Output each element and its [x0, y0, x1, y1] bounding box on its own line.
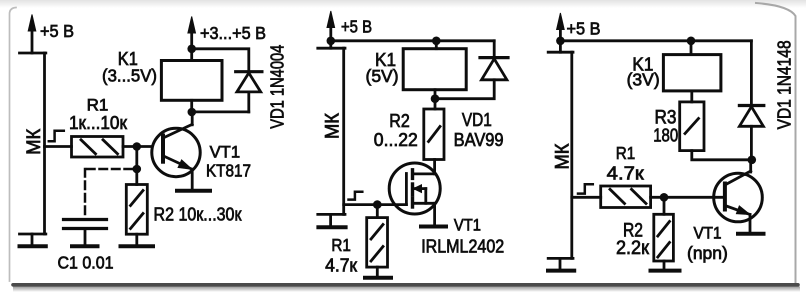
svg-text:2.2к: 2.2к	[616, 238, 650, 259]
wire node B to R2	[135, 169, 138, 185]
svg-text:R2 10к...30к: R2 10к...30к	[154, 204, 243, 225]
svg-text:(5V): (5V)	[366, 66, 399, 86]
gate bar	[405, 174, 408, 205]
diode VD1 1N4148	[739, 41, 763, 160]
+5V rail circuit 3	[560, 39, 751, 42]
MK vertical line	[342, 48, 345, 214]
transistor VT1 (npn) circuit 3	[714, 171, 763, 222]
svg-text:МК: МК	[553, 144, 574, 170]
page left border	[10, 8, 17, 282]
diode VD1 BAV99	[435, 41, 508, 99]
svg-text:4.7к: 4.7к	[607, 163, 645, 184]
wire relay top to diode branch	[192, 49, 249, 72]
resistor R2 0...22 circuit 2	[424, 109, 444, 160]
resistor R2 (10к...30к) circuit 1	[126, 185, 147, 235]
node rail at arrow	[327, 37, 336, 46]
ground under source circuit 2	[421, 225, 446, 229]
svg-text:BAV99: BAV99	[454, 129, 504, 150]
node B junction dot	[133, 165, 142, 174]
wire R1 to base node	[651, 196, 725, 199]
MK bottom bar	[318, 213, 345, 216]
svg-text:VT1: VT1	[454, 217, 481, 235]
svg-text:VD1 1N4004: VD1 1N4004	[268, 45, 288, 129]
node collector circuit 1	[188, 108, 197, 117]
drain internal	[413, 172, 435, 175]
wire node to R2 circuit 3	[663, 197, 666, 214]
node below relay circuit 2	[431, 94, 440, 103]
wire relay bottom to collector node	[190, 100, 193, 112]
wire R2 to ground	[135, 234, 138, 245]
gate wire MK to MOSFET	[344, 203, 407, 206]
+5V rail circuit 2	[331, 39, 494, 42]
svg-text:IRLML2402: IRLML2402	[421, 237, 504, 257]
channel segments	[411, 170, 414, 179]
resistor R1 4.7к circuit 2	[367, 205, 388, 277]
svg-text:+5 В: +5 В	[567, 19, 601, 39]
power arrow +5V circuit 1	[28, 15, 36, 54]
node rail at arrow circuit 3	[556, 37, 565, 46]
capacitor C1 0.01	[64, 220, 107, 246]
svg-text:1к...10к: 1к...10к	[69, 112, 128, 133]
svg-text:МК: МК	[322, 113, 343, 139]
pulse step symbol circuit 1	[49, 131, 64, 141]
wire R1 to node A	[123, 145, 152, 148]
svg-text:VT1: VT1	[210, 143, 241, 162]
source wire	[433, 203, 436, 225]
node collector circuit 3	[748, 156, 757, 165]
svg-text:C1 0.01: C1 0.01	[58, 253, 114, 273]
ground under R1 circuit 2	[365, 276, 391, 280]
resistor R2 2.2к circuit 3	[654, 214, 674, 269]
svg-text:4.7к: 4.7к	[325, 255, 357, 275]
node A junction dot	[133, 142, 142, 151]
ground under emitter circuit 1	[177, 189, 210, 193]
MK port rail circuit 3	[548, 52, 573, 258]
svg-text:(npn): (npn)	[687, 243, 728, 263]
wire relay bottom to node	[434, 90, 437, 109]
MK vertical line	[570, 52, 573, 258]
wire rail to relay top	[435, 41, 438, 49]
svg-text:МК: МК	[24, 129, 45, 155]
wire diode to collector node	[192, 111, 249, 114]
svg-text:VD1 1N4148: VD1 1N4148	[774, 40, 794, 129]
MK top bar	[318, 47, 345, 50]
collector wire circuit 3	[749, 160, 752, 172]
svg-text:+5 В: +5 В	[40, 21, 74, 41]
wire MK to R1	[45, 145, 72, 148]
transistor VT1 KT817 (npn)	[152, 124, 200, 176]
body to source connector	[424, 189, 427, 204]
page top edge shading	[0, 0, 806, 8]
MK port rail circuit 2	[318, 48, 345, 214]
power arrow +5V circuit 2	[327, 11, 335, 48]
wire R3 to collector node	[692, 151, 752, 160]
node rail above relay	[432, 37, 441, 46]
node top of relay circuit 1	[187, 45, 196, 54]
source internal	[413, 202, 435, 205]
MK bottom bar	[20, 233, 46, 236]
MK top bar	[548, 51, 573, 54]
wire MK to R1 circuit 3	[572, 196, 601, 199]
wire relay bottom to R3	[690, 91, 693, 102]
ground under emitter circuit 3	[738, 232, 764, 236]
svg-text:R2: R2	[389, 110, 410, 131]
MK port rail circuit 1	[20, 53, 46, 234]
power arrow +3...+5 В	[188, 17, 196, 61]
MK top bar	[20, 52, 46, 55]
svg-text:(3V): (3V)	[627, 70, 660, 90]
emitter wire	[191, 169, 194, 189]
pulse step symbol circuit 2	[349, 192, 363, 200]
svg-text:0...22: 0...22	[374, 130, 418, 150]
collector wire	[191, 112, 194, 125]
relay K1 (3V) circuit 3	[663, 55, 721, 91]
svg-text:R1: R1	[331, 235, 351, 255]
relay K1 (5V) circuit 2	[403, 49, 466, 90]
body arrow	[414, 187, 426, 190]
svg-text:180: 180	[653, 125, 678, 146]
dashed wire node B to C1	[85, 169, 132, 217]
pulse step symbol circuit 3	[578, 184, 593, 193]
MK ground circuit 3	[548, 258, 574, 270]
resistor R3 180	[680, 102, 704, 151]
ground under R2 circuit 1	[121, 244, 154, 248]
resistor R1 (1к...10к) circuit 1	[72, 137, 124, 158]
page right border	[756, 3, 796, 283]
diode VD1 1N4004	[236, 72, 262, 112]
svg-text:+3...+5 В: +3...+5 В	[200, 23, 266, 43]
drain wire	[433, 160, 436, 174]
MK bottom bar	[548, 257, 573, 260]
ground under R2 circuit 3	[651, 269, 680, 273]
node rail above relay circuit 3	[687, 37, 696, 46]
ground under C1	[72, 244, 98, 248]
svg-text:VT1: VT1	[694, 225, 722, 243]
svg-text:KT817: KT817	[206, 161, 251, 181]
MK ground circuit 2	[318, 214, 345, 227]
power arrow +5V circuit 3	[557, 13, 565, 52]
page bottom shadow	[13, 287, 800, 293]
svg-text:(3...5V): (3...5V)	[102, 66, 157, 86]
MK vertical line	[43, 53, 46, 234]
MK ground circuit 1	[20, 234, 46, 246]
resistor R1 4.7к circuit 3	[601, 186, 651, 208]
node base junction circuit 3	[660, 193, 669, 202]
svg-text:R1: R1	[616, 143, 636, 163]
svg-text:+5 В: +5 В	[341, 17, 372, 37]
svg-text:VD1: VD1	[462, 109, 492, 130]
wire rail to relay top circuit 3	[690, 41, 693, 55]
wire node A down to node B	[135, 147, 138, 170]
node gate junction dot	[373, 200, 382, 209]
emitter wire circuit 3	[749, 215, 752, 233]
relay K1 (3...5V) circuit 1	[161, 61, 222, 101]
MOSFET VT1 IRLML2402	[389, 163, 440, 214]
